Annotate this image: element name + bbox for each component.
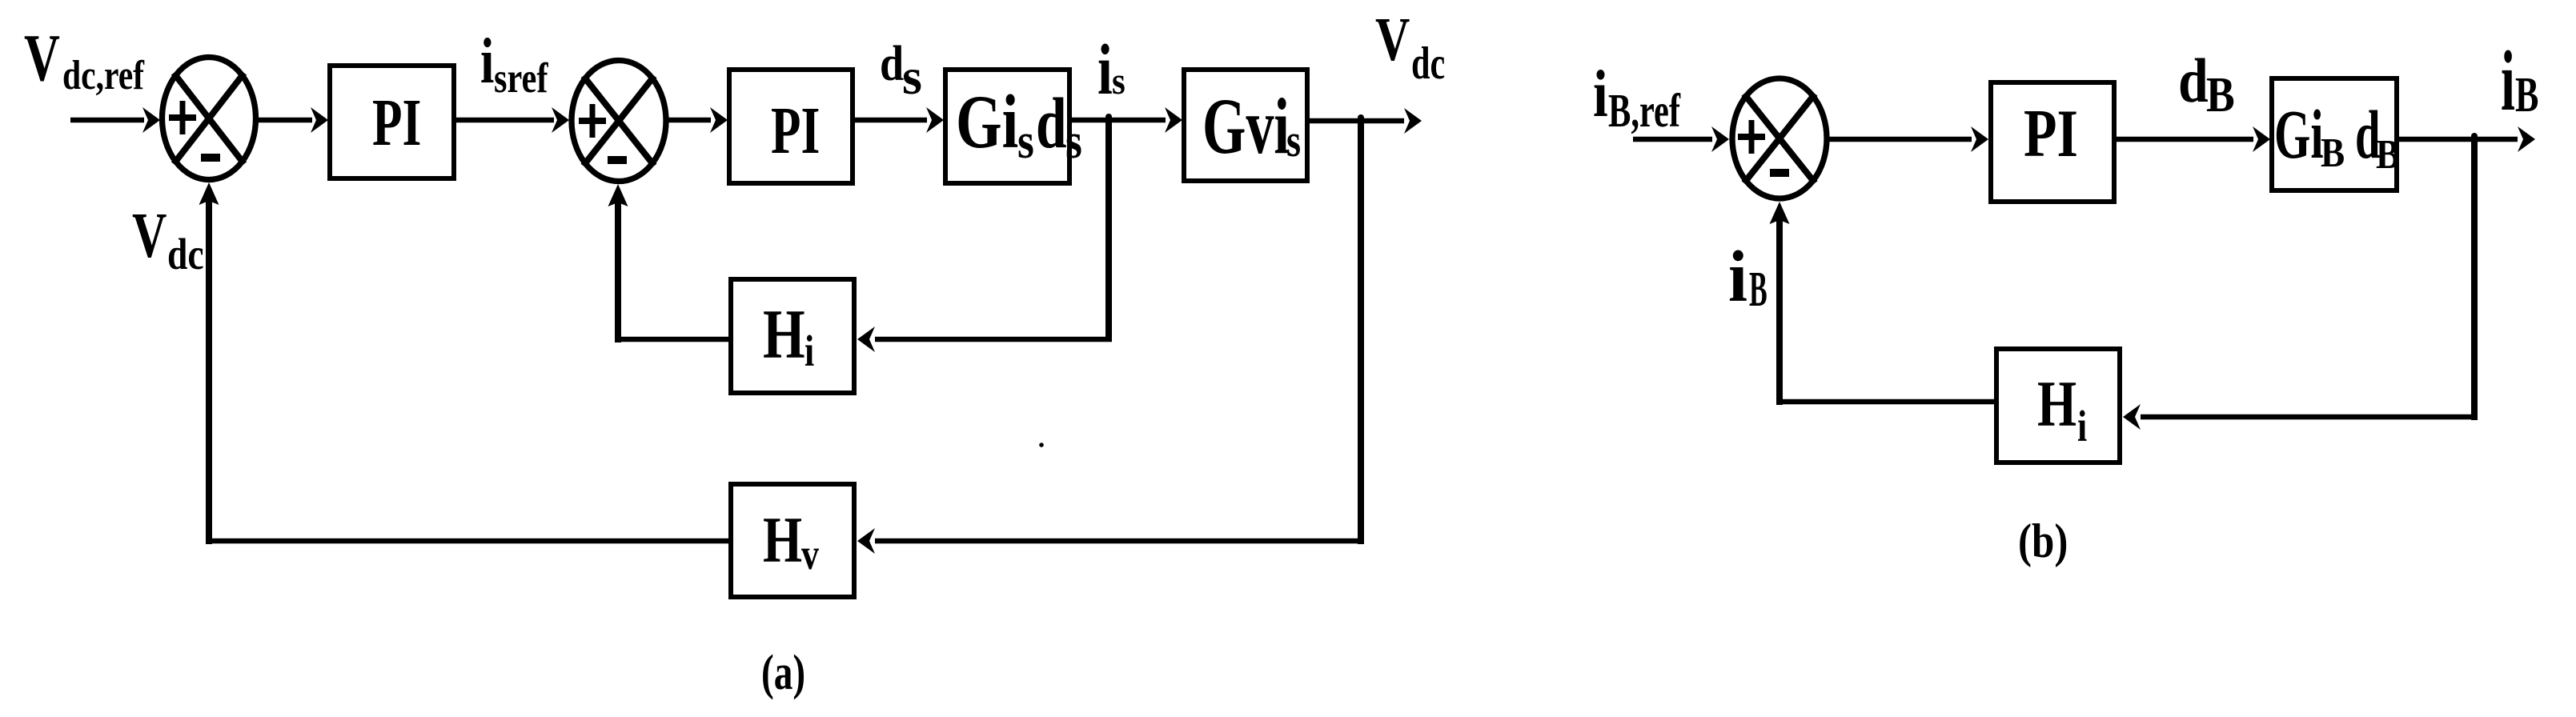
- wire Gisds to Gvis block: [1072, 107, 1182, 133]
- wire is feedback tap to Hi: [857, 118, 1112, 352]
- svg-text:i: i: [2501, 34, 2515, 129]
- wire PI to GiBdB block: [2117, 126, 2270, 152]
- svg-text:B: B: [2376, 131, 2400, 178]
- svg-text:s: s: [1112, 59, 1125, 102]
- svg-text:(b): (b): [2018, 515, 2068, 568]
- svg-text:i: i: [1097, 30, 1113, 110]
- svg-text:i: i: [804, 326, 814, 375]
- wire iB feedback tap to Hi (b): [2123, 137, 2478, 430]
- svg-text:V: V: [132, 201, 167, 271]
- wire Gvis to output Vdc: [1310, 108, 1422, 134]
- block PI (b): [1991, 82, 2114, 202]
- block GiBdB duty-to-current transfer (b): [2272, 78, 2400, 190]
- svg-text:d: d: [880, 35, 904, 91]
- node Vdc output label: [1375, 5, 1445, 89]
- svg-text:H: H: [763, 295, 805, 373]
- svg-text:d: d: [1036, 83, 1067, 163]
- block Hv voltage sensor: [731, 484, 854, 597]
- summing junction S1 (+,-): [163, 58, 256, 180]
- svg-text:Gvi: Gvi: [1202, 82, 1290, 170]
- node Vdc feedback label: [132, 201, 204, 278]
- caption (b): [2018, 515, 2068, 568]
- node isref label: [480, 26, 548, 102]
- wire Hi to S2 minus input: [608, 184, 729, 342]
- svg-text:s: s: [902, 48, 922, 105]
- wire input Vdc,ref to summing junction S1: [70, 107, 160, 133]
- svg-text:(a): (a): [761, 645, 805, 701]
- svg-text:Gi: Gi: [2274, 97, 2324, 174]
- svg-text:V: V: [1375, 5, 1410, 74]
- svg-text:i: i: [1593, 57, 1608, 131]
- wire input iB,ref to summing junction S3: [1633, 126, 1729, 152]
- block PI (current loop): [729, 70, 853, 183]
- wire S2 to PI current controller: [668, 107, 728, 133]
- node dB label: [2178, 46, 2235, 122]
- svg-text:i: i: [480, 26, 494, 97]
- node ds label: [880, 35, 922, 105]
- svg-text:PI: PI: [771, 93, 820, 168]
- block Hi current sensor (b): [1996, 349, 2120, 463]
- block Hi current sensor (a): [731, 279, 854, 393]
- junction node on Vdc output line: [1358, 114, 1364, 121]
- block Gisds duty-to-current transfer: [945, 70, 1082, 183]
- junction node on iB output line: [2471, 133, 2478, 139]
- svg-text:i: i: [1728, 237, 1747, 317]
- block PI (voltage loop): [330, 66, 454, 178]
- node iB output label: [2501, 34, 2538, 129]
- svg-text:sref: sref: [494, 55, 548, 102]
- svg-text:s: s: [1017, 113, 1034, 169]
- wire Hv to S1 minus input: [199, 182, 729, 544]
- svg-text:v: v: [801, 530, 819, 579]
- wire S1 to PI voltage controller: [259, 107, 328, 133]
- summing junction S3 (+,-): [1732, 78, 1827, 198]
- node is label: [1097, 30, 1125, 110]
- svg-text:Gi: Gi: [956, 80, 1018, 164]
- wire GiBdB to output iB: [2399, 126, 2535, 152]
- svg-text:B,ref: B,ref: [1608, 85, 1681, 137]
- svg-text:B: B: [1749, 261, 1767, 317]
- svg-text:B: B: [2206, 66, 2235, 122]
- block Gvis current-to-voltage transfer: [1184, 70, 1307, 181]
- svg-text:dc: dc: [1411, 38, 1445, 89]
- summing junction S2 (+,-): [572, 61, 666, 182]
- wire Vdc feedback tap to Hv: [857, 118, 1364, 554]
- svg-text:dc,ref: dc,ref: [62, 53, 145, 98]
- wire S3 to PI current controller (b): [1829, 126, 1988, 152]
- svg-text:d: d: [2178, 46, 2209, 115]
- svg-text:V: V: [24, 20, 60, 94]
- svg-text:dc: dc: [167, 230, 204, 278]
- wire Hi to S3 minus input: [1770, 202, 1995, 405]
- svg-text:B: B: [2515, 66, 2538, 122]
- svg-text:H: H: [763, 503, 802, 576]
- caption (a): [761, 645, 805, 701]
- svg-text:PI: PI: [372, 85, 421, 160]
- svg-text:B: B: [2321, 130, 2345, 176]
- wire PI to Gisds block: [855, 107, 944, 133]
- node iB feedback label: [1728, 237, 1767, 317]
- wire PI to summing junction S2: [456, 107, 569, 133]
- node Vdc,ref input label: [24, 20, 145, 98]
- svg-text:i: i: [2077, 402, 2087, 451]
- svg-text:H: H: [2037, 367, 2076, 440]
- stray dot mark: [1039, 443, 1044, 447]
- node iB,ref input label: [1593, 57, 1681, 138]
- svg-text:PI: PI: [2024, 95, 2078, 171]
- svg-text:s: s: [1286, 115, 1301, 166]
- junction node on is line: [1105, 114, 1112, 120]
